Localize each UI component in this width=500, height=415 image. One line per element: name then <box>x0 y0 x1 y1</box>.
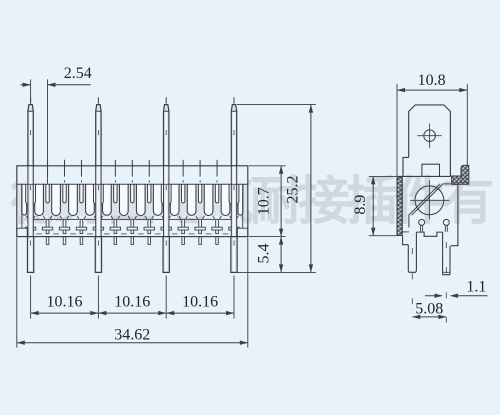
contact slits <box>26 184 239 205</box>
latch boot section (hatched) <box>452 165 469 184</box>
pin P1 <box>27 97 33 278</box>
body frame <box>17 166 248 237</box>
inner edge lines <box>21 184 23 228</box>
side view blade tab <box>403 105 450 176</box>
main circle crosshair <box>410 180 449 219</box>
svg-text:10.16: 10.16 <box>182 293 218 310</box>
svg-text:接: 接 <box>298 173 350 231</box>
dimension 5.08 <box>412 300 446 319</box>
svg-text:5.08: 5.08 <box>415 300 443 317</box>
svg-text:25.2: 25.2 <box>285 176 302 204</box>
dimension 1.1 <box>425 278 488 298</box>
svg-text:10.7: 10.7 <box>256 187 273 215</box>
dimension 8.9 <box>352 176 397 235</box>
rib feet and shelf lines <box>26 216 238 234</box>
dimension 10.8 <box>397 72 467 176</box>
diagonal slot <box>409 184 451 228</box>
watermark text <box>10 173 494 231</box>
svg-text:10.16: 10.16 <box>114 293 150 310</box>
dimension 5.4 <box>256 237 284 273</box>
svg-text:1.1: 1.1 <box>466 278 486 295</box>
contact circles <box>419 219 450 231</box>
blade hole crosshair <box>417 124 441 148</box>
dimension 2.54 <box>20 65 91 184</box>
dimension 10.7 <box>249 166 286 237</box>
solder tail stubs <box>46 237 218 245</box>
pin P3 <box>163 97 169 278</box>
svg-text:10.8: 10.8 <box>418 72 446 89</box>
connector body outline <box>17 166 248 185</box>
side body right edge <box>451 185 458 246</box>
svg-text:34.62: 34.62 <box>114 327 150 344</box>
side body bottom profile <box>403 232 443 245</box>
svg-text:5.4: 5.4 <box>256 244 273 264</box>
dimension 25.2 <box>237 104 316 272</box>
side legs <box>408 228 450 323</box>
blade base notch <box>422 164 440 176</box>
pitch tick marks <box>31 160 234 183</box>
contact cavities row <box>22 184 243 215</box>
left wall section (hatched) <box>397 177 402 236</box>
svg-text:10.16: 10.16 <box>47 293 83 310</box>
dimensions 10.16 x3 <box>31 276 234 319</box>
pin P2 <box>95 97 101 278</box>
contact anchors <box>25 219 239 233</box>
dimension 34.62 <box>17 238 248 348</box>
svg-text:8.9: 8.9 <box>352 195 369 215</box>
body corner notches <box>17 228 27 236</box>
svg-text:2.54: 2.54 <box>64 65 92 82</box>
pin P4 <box>231 97 237 278</box>
side body top <box>397 175 451 177</box>
